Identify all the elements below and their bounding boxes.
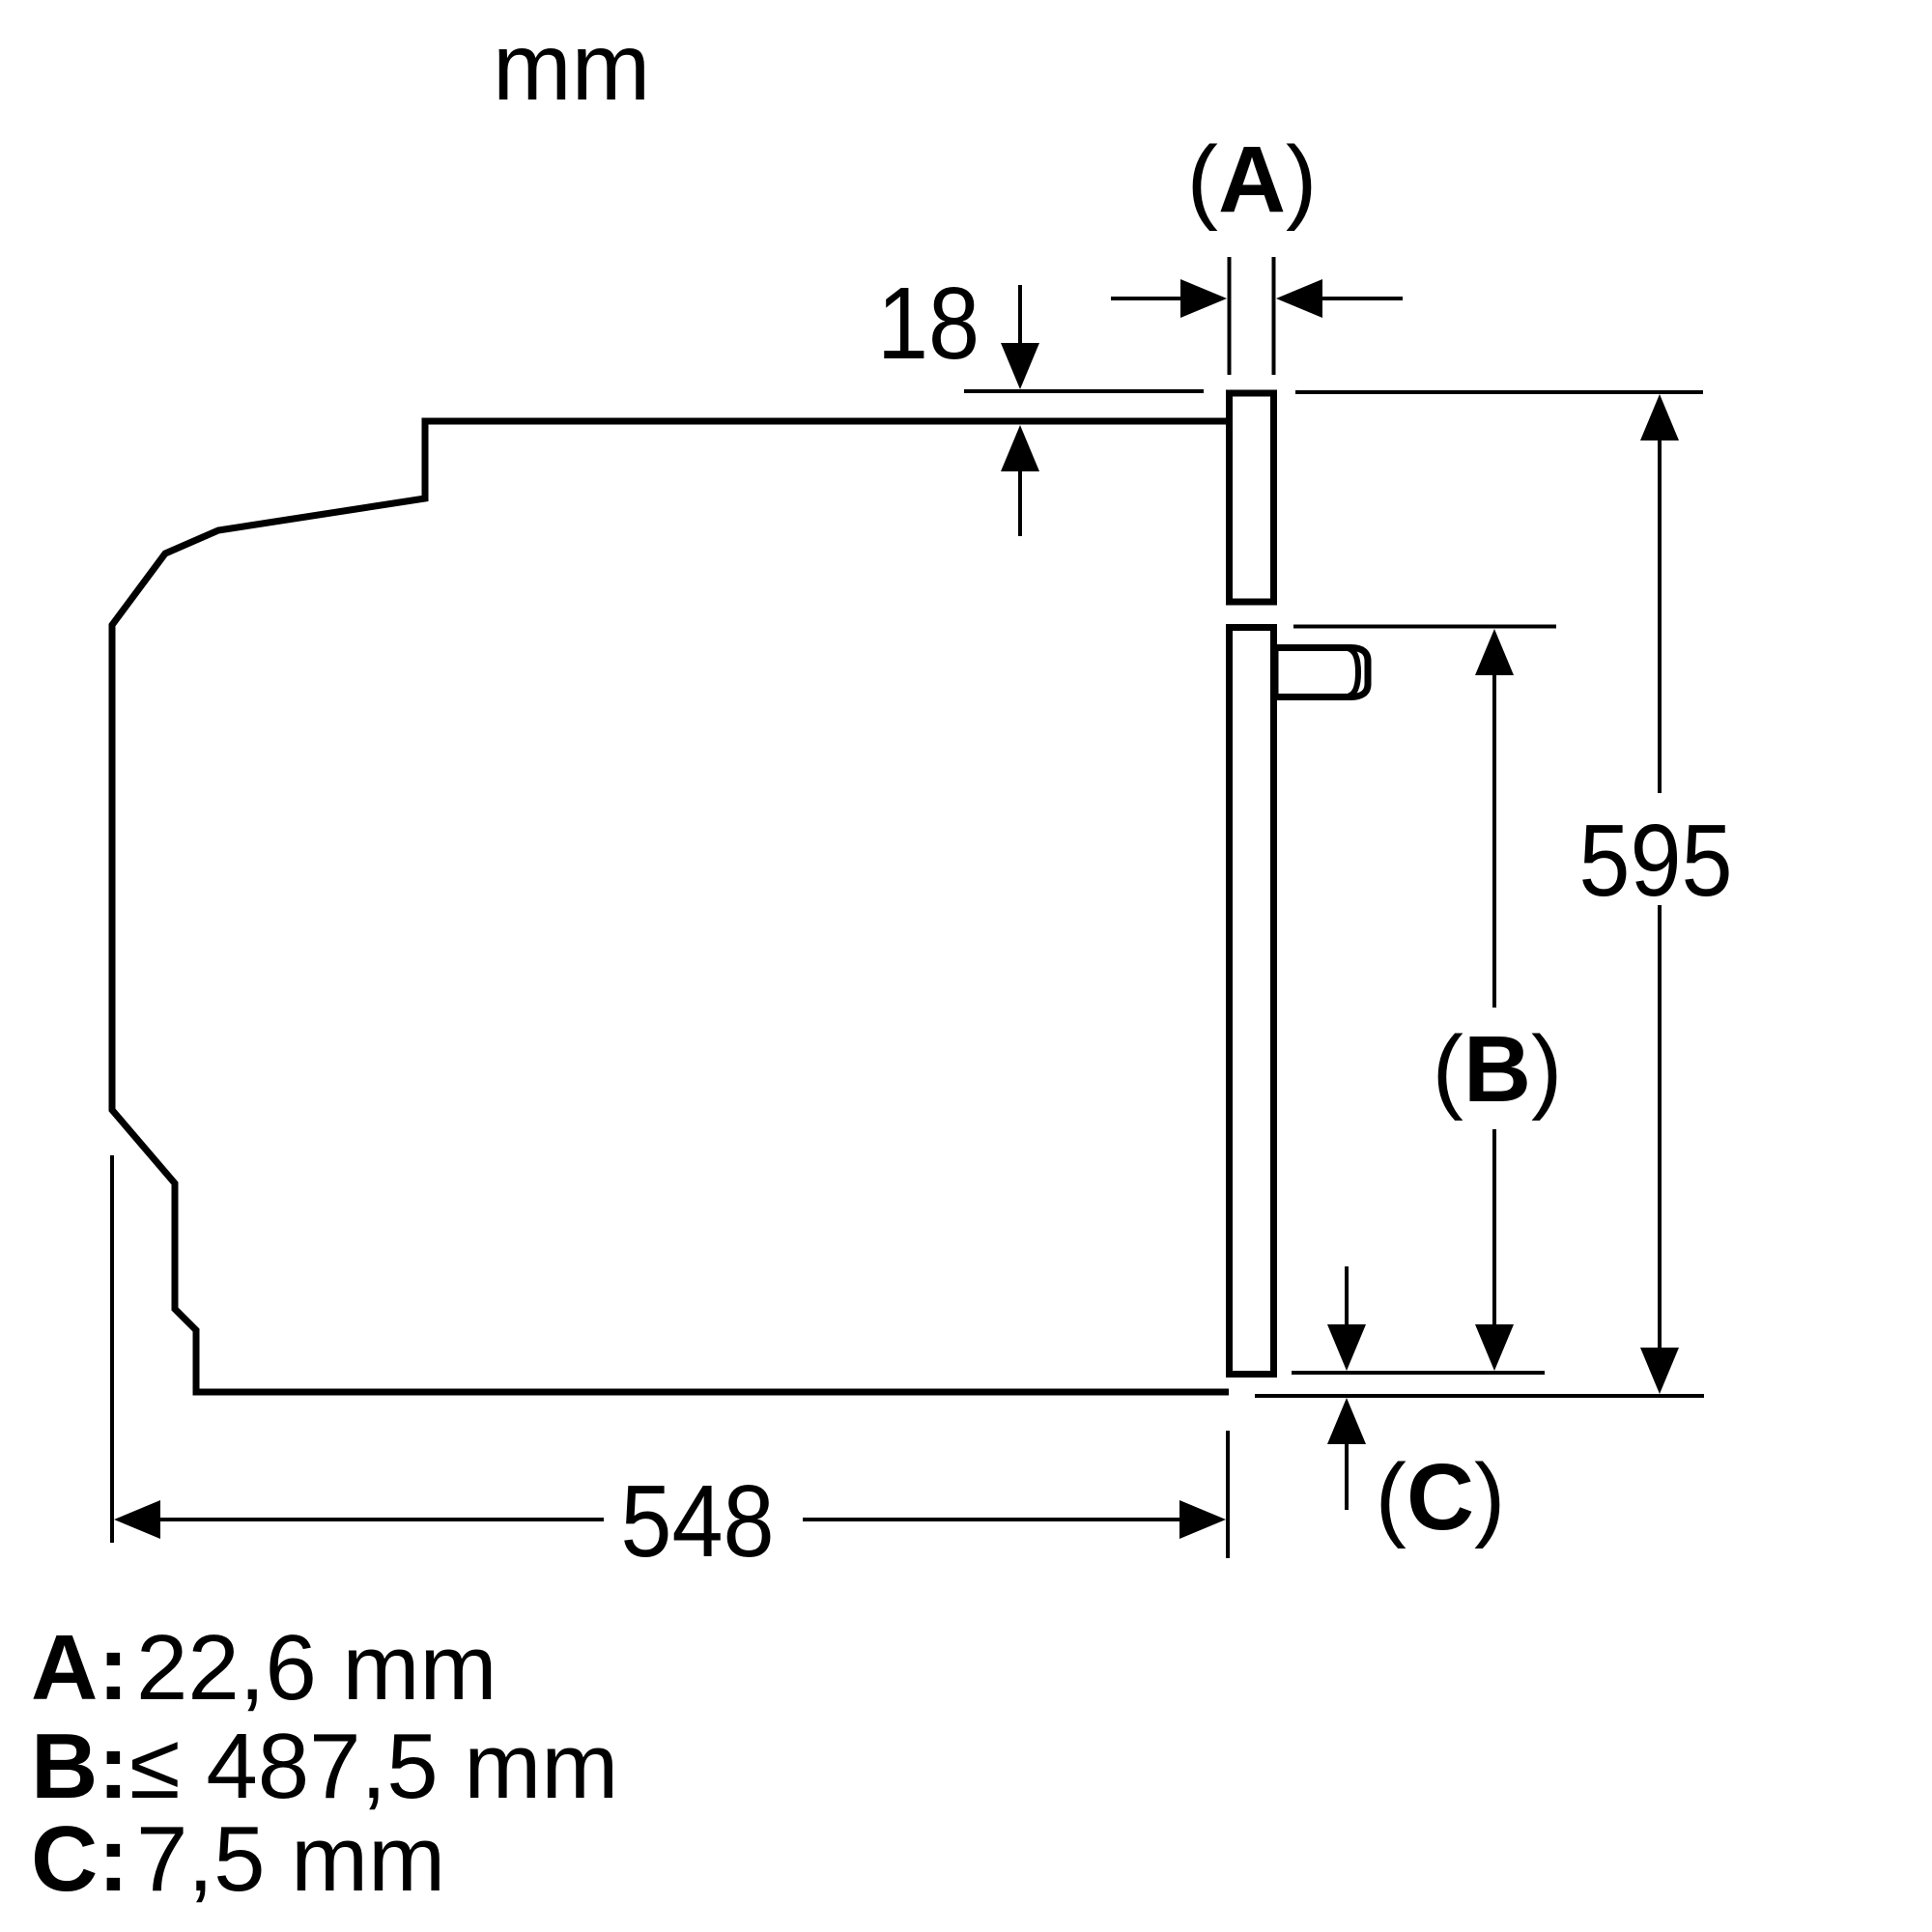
dimension C down arrow: [1327, 1266, 1366, 1371]
dimension 548 right arrow: [803, 1500, 1226, 1539]
knob: [1275, 648, 1368, 697]
top reference line left segment (door top level): [964, 389, 1204, 393]
svg-text:22,6 mm: 22,6 mm: [136, 1616, 497, 1719]
label 548: [620, 1464, 774, 1578]
oven body outline: [112, 421, 1229, 1392]
dimension B top extension line: [1293, 625, 1556, 629]
svg-text:(A): (A): [1187, 127, 1318, 232]
dimension B bottom / C top extension line: [1292, 1371, 1545, 1375]
dimension A right extension line: [1272, 257, 1276, 375]
svg-text:C:: C:: [31, 1807, 128, 1911]
bottom reference line (595 bottom / C bottom extension): [1255, 1394, 1704, 1398]
dimension A right arrow: [1276, 279, 1403, 318]
label 595: [1578, 804, 1732, 918]
svg-text:(B): (B): [1433, 1016, 1563, 1122]
svg-text:7,5 mm: 7,5 mm: [136, 1807, 445, 1911]
dimension A left arrow: [1111, 279, 1227, 318]
dimension 548 right extension line: [1226, 1431, 1230, 1558]
dimension 595 line with arrows: [1640, 394, 1679, 1394]
door upper panel: [1230, 393, 1274, 602]
dimension C up arrow: [1327, 1398, 1366, 1510]
svg-text:≤ 487,5 mm: ≤ 487,5 mm: [129, 1715, 618, 1818]
dimension B line with arrows: [1475, 629, 1514, 1371]
dimension 548 left arrow: [114, 1500, 604, 1539]
svg-text:18: 18: [877, 267, 980, 381]
svg-text:B:: B:: [31, 1715, 128, 1818]
dimension 18 up arrow: [1001, 425, 1039, 536]
svg-text:A:: A:: [31, 1616, 128, 1719]
svg-text:(C): (C): [1376, 1444, 1506, 1549]
dimension 18 label: [877, 267, 980, 381]
dimension A left extension line: [1228, 257, 1232, 375]
door lower panel: [1230, 628, 1274, 1375]
svg-text:595: 595: [1578, 804, 1732, 918]
top reference line right segment (595 top extension): [1295, 390, 1703, 394]
svg-text:548: 548: [620, 1464, 774, 1578]
dimension 18 down arrow: [1001, 285, 1039, 389]
dimension 548 left extension line: [110, 1155, 114, 1543]
svg-text:mm: mm: [493, 14, 650, 120]
